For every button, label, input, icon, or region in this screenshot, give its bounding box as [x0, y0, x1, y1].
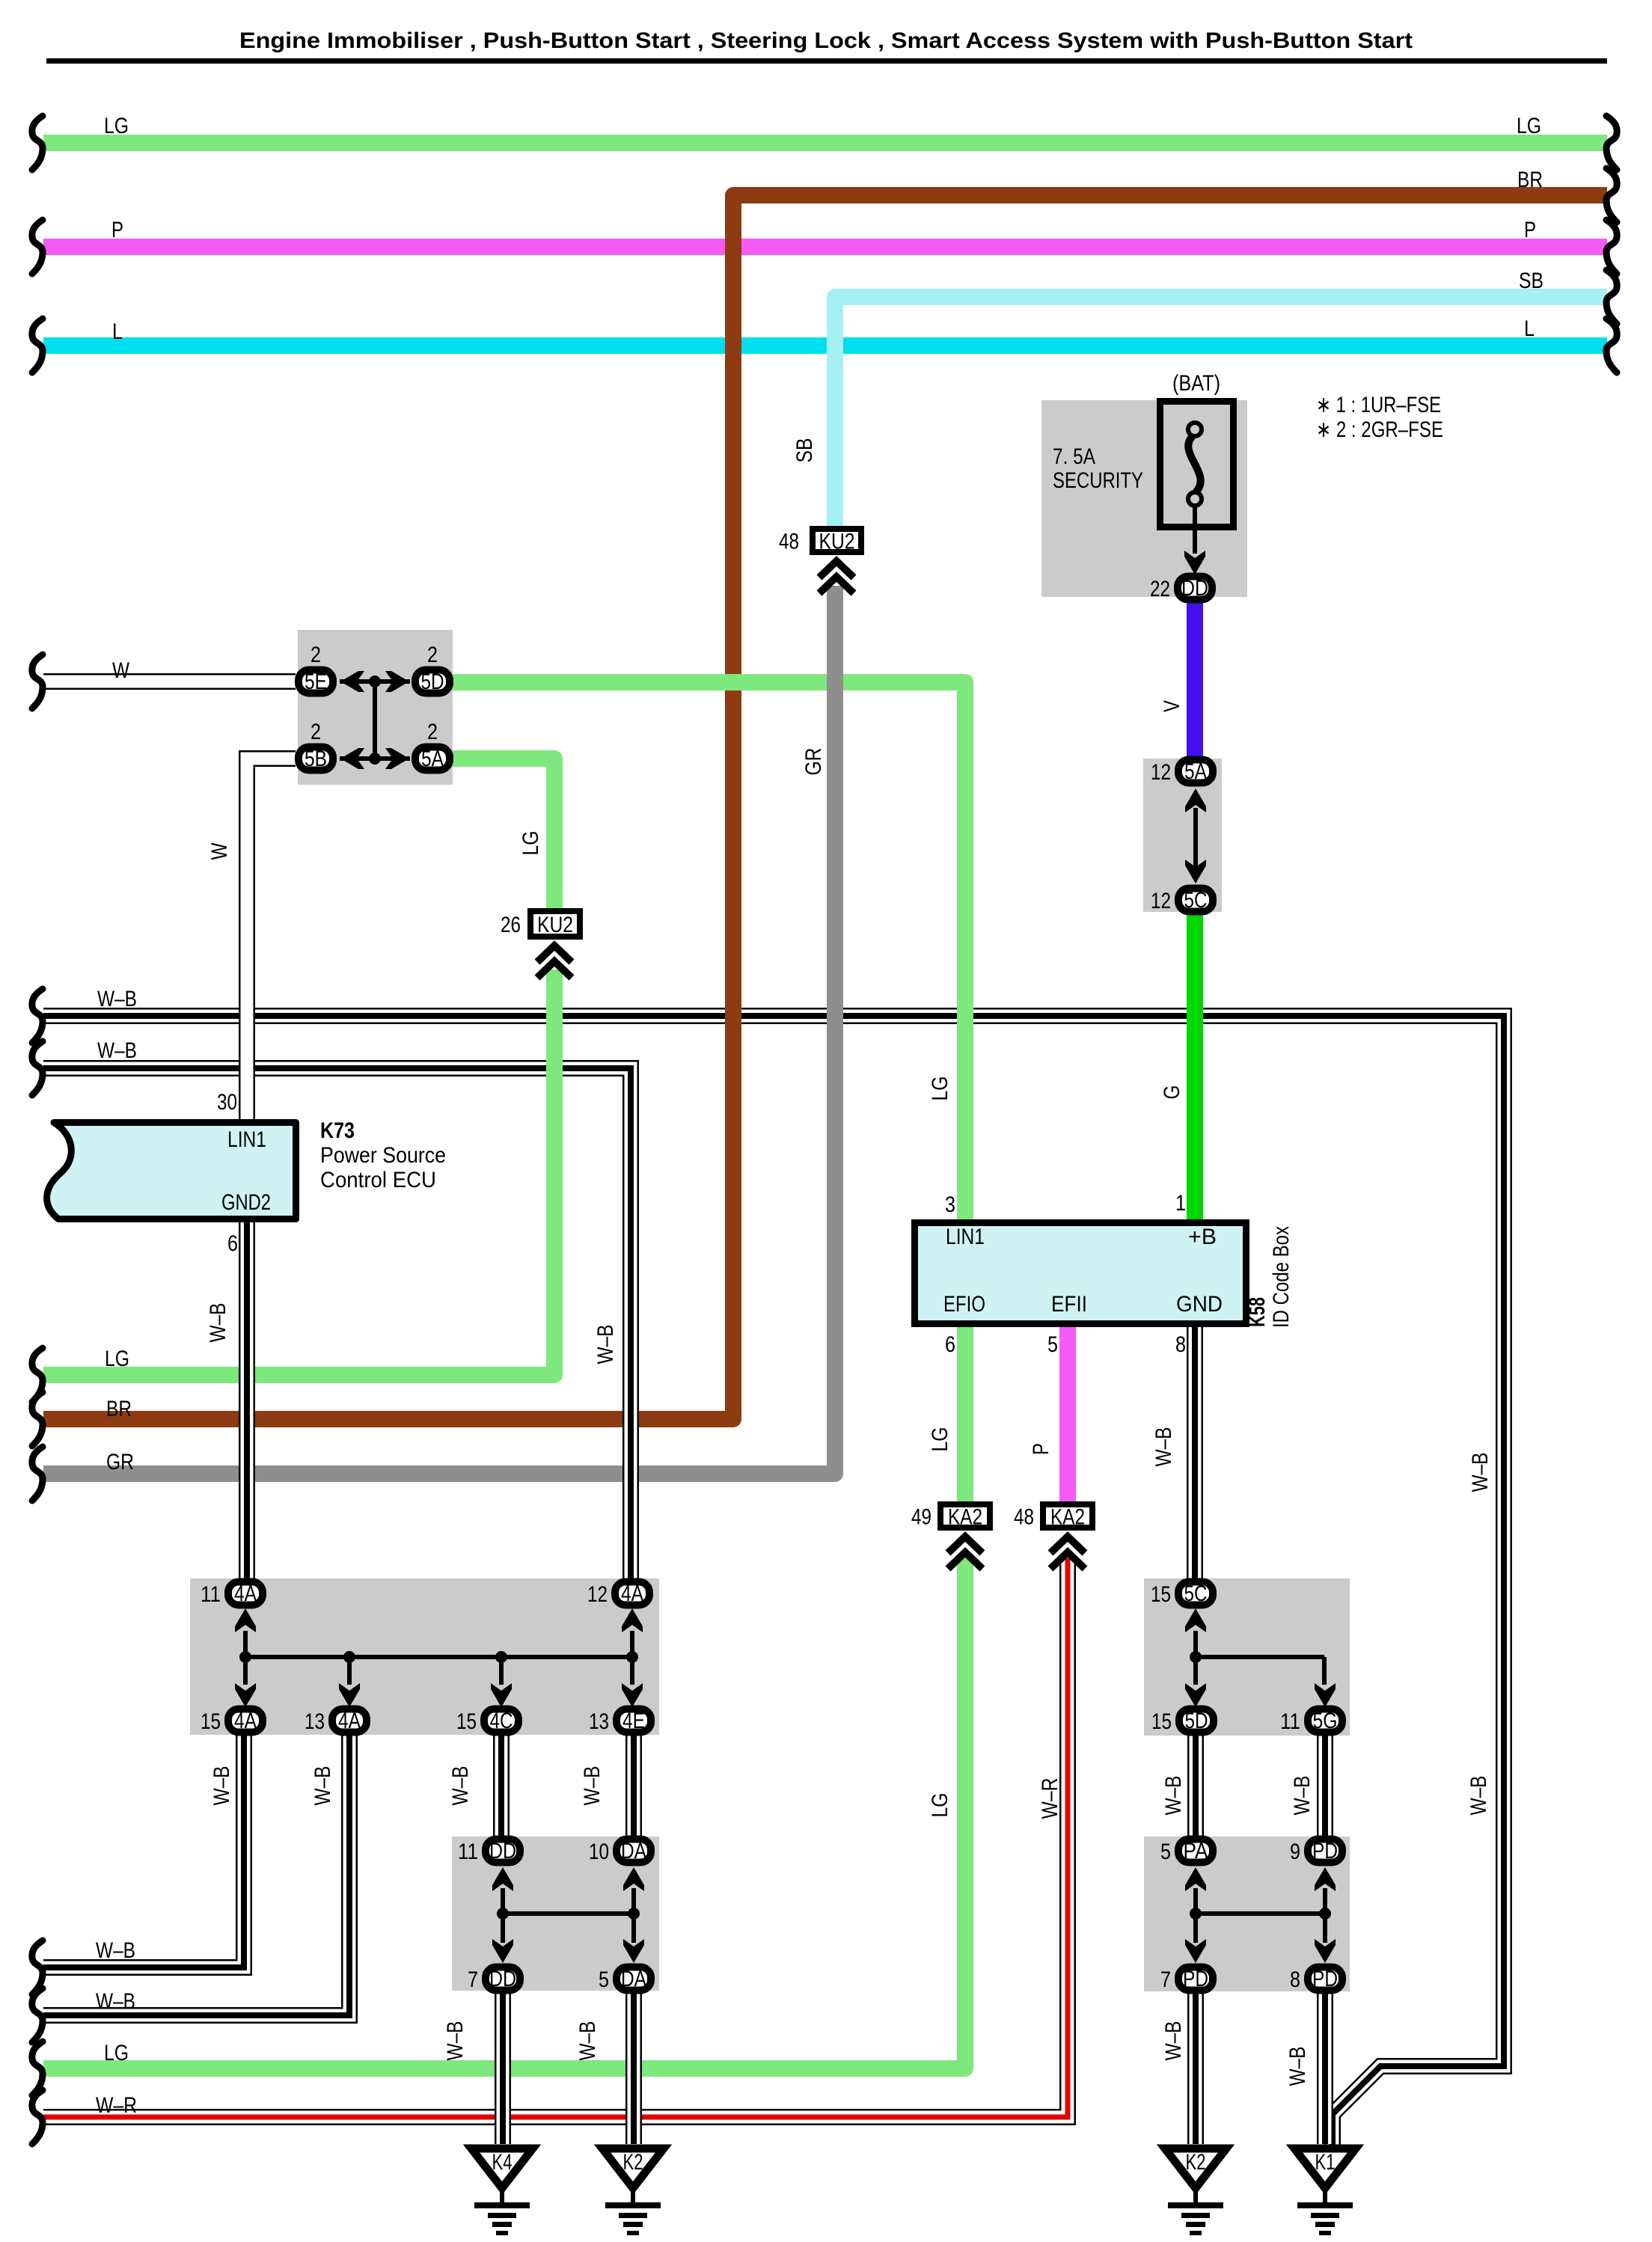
- svg-text:3: 3: [945, 1192, 955, 1217]
- svg-text:11: 11: [201, 1582, 221, 1607]
- svg-text:49: 49: [911, 1505, 931, 1530]
- wire W-B K58 GND to 5C: [1187, 1327, 1203, 1578]
- svg-text:2: 2: [310, 643, 321, 667]
- svg-text:Control ECU: Control ECU: [320, 1168, 436, 1192]
- svg-text:W–B: W–B: [580, 1766, 605, 1806]
- wire break symbols left: [32, 116, 43, 170]
- connector block shading 4A: [190, 1578, 659, 1735]
- wire LG bottom bus: [43, 1558, 965, 2068]
- connector pin PD: [1290, 1839, 1342, 1864]
- wire LG EFIO to KA2-49: [957, 1327, 973, 1503]
- ground K1: [1294, 2148, 1356, 2235]
- svg-text:LG: LG: [928, 1793, 952, 1818]
- junction lines DD/DA block: [501, 1888, 505, 1943]
- connector pin 5C: [1151, 888, 1213, 913]
- svg-text:15: 15: [1151, 1582, 1171, 1607]
- connector pin PD: [1160, 1967, 1213, 1992]
- svg-text:K2: K2: [623, 2150, 643, 2175]
- svg-text:4A: 4A: [621, 1581, 643, 1606]
- svg-text:PD: PD: [1312, 1839, 1338, 1863]
- svg-text:13: 13: [589, 1709, 609, 1734]
- svg-text:Power Source: Power Source: [320, 1143, 446, 1168]
- svg-text:5: 5: [1047, 1332, 1058, 1357]
- svg-text:5D: 5D: [1185, 1709, 1208, 1733]
- wire W to 5E: [43, 673, 296, 690]
- svg-text:(BAT): (BAT): [1172, 371, 1220, 396]
- connector pin 4E: [589, 1709, 651, 1734]
- svg-text:15: 15: [456, 1709, 477, 1734]
- svg-text:DD: DD: [489, 1839, 516, 1863]
- wire LG 5A to KU2-26: [453, 759, 554, 910]
- svg-text:11: 11: [458, 1840, 478, 1864]
- svg-text:W–R: W–R: [96, 2093, 137, 2118]
- svg-text:GR: GR: [106, 1450, 134, 1474]
- svg-text:SB: SB: [1519, 269, 1544, 293]
- svg-text:W–B: W–B: [1285, 2047, 1310, 2086]
- wire W 5B to K73 pin30: [247, 759, 296, 1119]
- junction lines 5C/5D/5G block: [1193, 1631, 1198, 1685]
- svg-text:EFIO: EFIO: [943, 1292, 985, 1317]
- wire V: [1187, 601, 1203, 757]
- svg-text:PD: PD: [1183, 1967, 1208, 1991]
- wire W-B bus to right side / K1: [43, 1016, 1504, 2145]
- svg-text:KU2: KU2: [537, 913, 573, 937]
- svg-text:4A: 4A: [338, 1709, 361, 1733]
- svg-text:KA2: KA2: [1050, 1505, 1085, 1530]
- connector pin 5C: [1151, 1581, 1213, 1607]
- svg-text:L: L: [1524, 316, 1535, 341]
- svg-text:W–B: W–B: [1290, 1776, 1315, 1816]
- connector block shading DD/DA: [452, 1837, 659, 1991]
- wire LG top bus: [43, 135, 1607, 151]
- svg-text:Engine Immobiliser , Push-Butt: Engine Immobiliser , Push-Button Start ,…: [239, 28, 1413, 53]
- svg-text:15: 15: [1151, 1709, 1172, 1734]
- connector pin 5A: [415, 720, 450, 771]
- svg-text:6: 6: [227, 1231, 238, 1256]
- svg-text:K58: K58: [1245, 1297, 1270, 1327]
- wire LG mid bus: [43, 970, 554, 1375]
- svg-text:LG: LG: [928, 1427, 952, 1452]
- svg-text:5A: 5A: [421, 747, 444, 771]
- svg-text:W–B: W–B: [1468, 1453, 1493, 1492]
- svg-text:DA: DA: [621, 1967, 646, 1991]
- svg-text:KA2: KA2: [948, 1505, 982, 1530]
- wire P EFII to KA2-48: [1059, 1327, 1076, 1503]
- svg-text:W–B: W–B: [1466, 1776, 1491, 1816]
- svg-text:K1: K1: [1315, 2150, 1336, 2175]
- wire W-B 4A-15 to left: [43, 1733, 244, 1967]
- svg-text:5A: 5A: [1184, 759, 1207, 784]
- svg-text:5E: 5E: [305, 670, 327, 694]
- junction lines 5E-5D-5B-5A: [340, 679, 410, 684]
- wire W-B DD-7 to K4: [495, 1994, 511, 2144]
- connector KU2 26: [501, 911, 580, 937]
- svg-text:LG: LG: [928, 1076, 952, 1101]
- svg-text:GND2: GND2: [221, 1190, 271, 1215]
- svg-text:30: 30: [217, 1090, 237, 1115]
- connector pin DD: [458, 1839, 520, 1864]
- svg-text:13: 13: [305, 1709, 325, 1734]
- svg-text:W–B: W–B: [448, 1766, 473, 1806]
- connector block shading 5C/5D/5G: [1144, 1578, 1350, 1736]
- svg-text:+B: +B: [1188, 1225, 1217, 1249]
- svg-text:2: 2: [427, 720, 438, 744]
- svg-text:W–B: W–B: [1161, 2021, 1186, 2061]
- svg-text:22: 22: [1150, 577, 1170, 601]
- ECU K73 Power Source Control ECU: [47, 1123, 296, 1219]
- svg-text:W–B: W–B: [1151, 1427, 1176, 1467]
- svg-text:W–B: W–B: [206, 1303, 230, 1343]
- connector KU2 48: [779, 529, 861, 554]
- svg-text:5: 5: [599, 1967, 609, 1992]
- svg-text:7. 5A: 7. 5A: [1053, 444, 1095, 469]
- svg-text:K2: K2: [1186, 2150, 1206, 2175]
- wire LG 5D to K58 LIN1: [453, 682, 965, 1219]
- svg-text:4C: 4C: [490, 1709, 513, 1733]
- svg-text:LG: LG: [518, 831, 543, 856]
- svg-text:4A: 4A: [234, 1709, 257, 1733]
- connector pin PA: [1160, 1839, 1213, 1864]
- svg-text:48: 48: [779, 530, 799, 554]
- svg-text:P: P: [1029, 1443, 1053, 1455]
- svg-text:2: 2: [310, 720, 321, 744]
- svg-text:5B: 5B: [305, 747, 327, 771]
- svg-text:LIN1: LIN1: [946, 1225, 985, 1249]
- svg-text:W–B: W–B: [97, 1038, 137, 1063]
- svg-text:15: 15: [201, 1709, 221, 1734]
- svg-text:1: 1: [1175, 1191, 1186, 1216]
- svg-text:LIN1: LIN1: [227, 1127, 266, 1152]
- ground K2: [1165, 2148, 1226, 2235]
- svg-text:G: G: [1160, 1085, 1184, 1100]
- svg-text:DD: DD: [489, 1967, 516, 1991]
- svg-text:7: 7: [1160, 1967, 1171, 1992]
- svg-text:7: 7: [468, 1967, 478, 1992]
- connector pin DD: [1150, 576, 1212, 601]
- svg-text:W–B: W–B: [443, 2021, 468, 2061]
- connector pin 5B: [299, 720, 333, 771]
- svg-text:EFII: EFII: [1051, 1292, 1087, 1317]
- svg-text:LG: LG: [104, 114, 129, 138]
- wire BR: [43, 195, 1607, 1419]
- svg-text:5G: 5G: [1313, 1709, 1338, 1733]
- wire W-B DA-5 to K2: [625, 1994, 642, 2144]
- svg-text:W–B: W–B: [96, 1938, 135, 1963]
- wire GR: [43, 586, 835, 1474]
- wire W-B 5G to PD9: [1317, 1736, 1333, 1837]
- svg-text:4E: 4E: [622, 1709, 645, 1733]
- svg-text:W–B: W–B: [96, 1989, 135, 2014]
- svg-text:DD: DD: [1181, 576, 1208, 601]
- wire W-B PD7 to K2: [1187, 1994, 1204, 2144]
- svg-text:W–B: W–B: [310, 1766, 335, 1806]
- connector block shading 5E/5D/5B/5A: [298, 630, 453, 785]
- svg-text:ID Code Box: ID Code Box: [1269, 1226, 1294, 1328]
- connector pin 4A: [201, 1709, 263, 1734]
- svg-text:W–B: W–B: [97, 987, 137, 1011]
- wire break symbols right: [1606, 116, 1617, 170]
- connector pin 5D: [1151, 1709, 1214, 1734]
- svg-text:SECURITY: SECURITY: [1053, 468, 1143, 493]
- connector pin 4A: [201, 1581, 263, 1607]
- connector block shading 5A/5C: [1143, 759, 1222, 912]
- svg-text:W–B: W–B: [593, 1325, 618, 1365]
- wire SB: [835, 297, 1607, 527]
- connector block shading PA/PD: [1144, 1837, 1350, 1991]
- wire W-B K73 GND2 to 4A-11: [239, 1222, 255, 1581]
- svg-text:W–R: W–R: [1038, 1778, 1062, 1819]
- svg-text:KU2: KU2: [819, 530, 855, 554]
- svg-text:W: W: [112, 658, 130, 683]
- ECU K58 ID Code Box: [915, 1223, 1246, 1324]
- svg-text:LG: LG: [105, 1347, 129, 1371]
- wire W-B 4C to DD-11: [493, 1733, 510, 1837]
- svg-text:LG: LG: [1517, 114, 1541, 138]
- svg-text:PD: PD: [1312, 1967, 1338, 1991]
- wire G: [1187, 913, 1203, 1219]
- svg-text:26: 26: [501, 913, 521, 937]
- connector pin 4C: [456, 1709, 518, 1734]
- svg-text:BR: BR: [106, 1397, 132, 1421]
- connector pin 5G: [1280, 1709, 1342, 1734]
- svg-text:5D: 5D: [421, 670, 444, 694]
- connector pin 5E: [299, 643, 333, 694]
- svg-text:GR: GR: [801, 748, 826, 776]
- svg-text:11: 11: [1280, 1709, 1300, 1734]
- wire W-B PD8 to K1: [1317, 1994, 1333, 2144]
- svg-text:6: 6: [945, 1332, 955, 1357]
- wire W-B 4E to DA-10: [625, 1733, 642, 1837]
- svg-text:W: W: [207, 842, 232, 860]
- svg-text:5C: 5C: [1184, 888, 1208, 913]
- svg-text:LG: LG: [104, 2041, 129, 2065]
- svg-text:∗ 2 : 2GR–FSE: ∗ 2 : 2GR–FSE: [1316, 417, 1443, 442]
- ground K2: [602, 2148, 664, 2235]
- svg-text:V: V: [1160, 700, 1184, 712]
- svg-text:12: 12: [1151, 889, 1171, 913]
- ground K4: [471, 2148, 533, 2235]
- connector pin 5D: [415, 643, 450, 694]
- svg-text:W–B: W–B: [575, 2021, 600, 2061]
- svg-text:BR: BR: [1517, 168, 1543, 192]
- wire W-R bus to KA2-48: [43, 1558, 1068, 2117]
- fuse block shading: [1041, 400, 1247, 597]
- svg-text:GND: GND: [1176, 1292, 1223, 1317]
- connector KA2 48: [1014, 1504, 1092, 1530]
- svg-text:W–B: W–B: [1161, 1776, 1186, 1816]
- svg-text:48: 48: [1014, 1505, 1034, 1530]
- svg-text:12: 12: [1151, 760, 1171, 785]
- svg-text:∗ 1 : 1UR–FSE: ∗ 1 : 1UR–FSE: [1316, 393, 1441, 417]
- svg-text:SB: SB: [792, 438, 817, 463]
- svg-text:8: 8: [1175, 1332, 1186, 1357]
- svg-text:9: 9: [1290, 1840, 1300, 1864]
- svg-text:5C: 5C: [1184, 1581, 1208, 1606]
- svg-text:8: 8: [1290, 1967, 1300, 1992]
- svg-text:5: 5: [1160, 1840, 1171, 1864]
- svg-text:2: 2: [427, 643, 438, 667]
- wire W-B bus2 vertical: [622, 1077, 639, 1581]
- wire W-B 5D to PA: [1187, 1736, 1204, 1837]
- wire W-B 4A-13 to left: [43, 1733, 349, 2015]
- svg-text:4A: 4A: [234, 1581, 257, 1606]
- wire L bus: [43, 337, 1607, 354]
- connector pin DD: [468, 1967, 520, 1992]
- connector KA2 49: [911, 1504, 990, 1530]
- svg-text:PA: PA: [1184, 1839, 1208, 1863]
- svg-text:12: 12: [587, 1582, 608, 1607]
- connector pin 4A: [587, 1581, 649, 1607]
- junction lines 4A block: [243, 1631, 248, 1657]
- connector pin 4A: [305, 1709, 367, 1734]
- junction lines PA/PD block: [1193, 1888, 1198, 1943]
- svg-text:DA: DA: [621, 1839, 646, 1863]
- svg-text:10: 10: [589, 1840, 609, 1864]
- svg-text:L: L: [112, 319, 123, 344]
- svg-text:K73: K73: [320, 1118, 355, 1143]
- wire W-B bus 2 to 4A-12: [43, 1068, 631, 1581]
- svg-text:K4: K4: [492, 2150, 513, 2175]
- connector pin 5A: [1151, 759, 1213, 785]
- junction 5A-5C: [1193, 808, 1198, 868]
- connector pin PD: [1290, 1967, 1342, 1992]
- fuse 7.5A SECURITY: [1160, 402, 1234, 554]
- wire P bus: [43, 239, 1607, 255]
- svg-text:W–B: W–B: [209, 1766, 234, 1806]
- connector pin DA: [599, 1967, 651, 1992]
- svg-text:P: P: [1524, 218, 1536, 242]
- svg-text:P: P: [111, 218, 123, 242]
- connector pin DA: [589, 1839, 651, 1864]
